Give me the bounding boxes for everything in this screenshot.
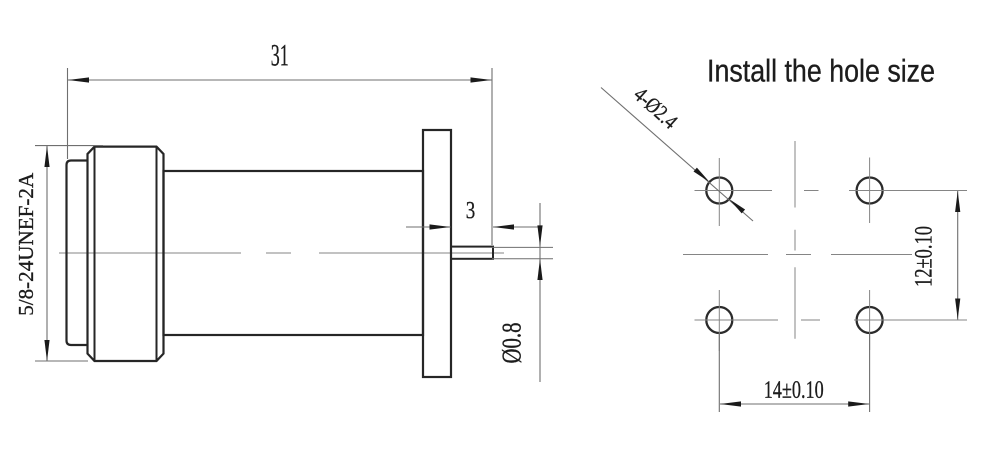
dimension 31: right arrowhead	[471, 77, 492, 82]
hole bottom-left	[706, 307, 732, 333]
svg-text:3: 3	[466, 197, 476, 224]
dimension 14±0.10: left arrowhead	[720, 401, 741, 406]
svg-text:14±0.10: 14±0.10	[764, 377, 824, 404]
dimension 3 (pin length): dimension line left part	[406, 226, 451, 228]
hex nut left flat line	[94, 147, 96, 361]
dimension 5/8-24UNEF-2A: dimension line	[46, 146, 48, 361]
connector rear cap (left rounded rectangle)	[67, 161, 88, 346]
dimension 3: left arrowhead (points right at flange face)	[430, 224, 451, 229]
dimension 5/8-24UNEF-2A: extension lines	[35, 146, 103, 361]
hex nut body (octagon outline)	[88, 147, 164, 361]
dimension 5/8-24UNEF-2A: top arrowhead	[44, 146, 49, 167]
centerline (main axis)	[59, 252, 504, 254]
dimension 3: dimension line right part	[493, 226, 540, 228]
dimension 12±0.10: bottom arrowhead	[955, 299, 960, 320]
svg-text:12±0.10: 12±0.10	[911, 226, 938, 287]
pin diameter extension lines	[492, 247, 553, 258]
centerline middle column	[794, 141, 796, 339]
dimension Ø0.8: upper arrowhead (points down)	[537, 225, 542, 246]
hole bottom-right	[857, 307, 883, 333]
leader 4-Ø2.4: upper arrowhead (points to hole)	[694, 168, 710, 182]
centerline top row	[695, 190, 968, 192]
hole top-right	[857, 178, 883, 204]
svg-text:5/8-24UNEF-2A: 5/8-24UNEF-2A	[14, 172, 38, 315]
centerline bottom row	[695, 319, 968, 321]
dimension Ø0.8: dimension line	[539, 203, 541, 382]
svg-text:Ø0.8: Ø0.8	[497, 323, 527, 364]
centerline right column	[869, 158, 871, 351]
connector cylindrical body	[164, 171, 424, 335]
svg-text:31: 31	[271, 37, 289, 72]
center contact pin	[451, 247, 493, 259]
dimension 3: right arrowhead (points left at pin tip)	[493, 224, 514, 229]
dimension 5/8-24UNEF-2A: bottom arrowhead	[44, 340, 49, 361]
dimension 12±0.10: top arrowhead	[955, 191, 960, 212]
dimension 14±0.10: right arrowhead	[848, 401, 869, 406]
dimension 31: extension lines	[68, 68, 493, 245]
dimension 14±0.10: dimension line	[720, 403, 869, 405]
hole top-left	[706, 178, 732, 204]
leader 4-Ø2.4: lower arrowhead (points to hole)	[729, 199, 745, 213]
dimension Ø0.8: lower arrowhead (points up)	[537, 259, 542, 280]
mounting flange	[423, 130, 451, 377]
dimension 31: left arrowhead	[68, 77, 89, 82]
leader 4-Ø2.4: leader line	[601, 88, 753, 222]
dimension 31: dimension line	[68, 79, 492, 81]
centerline middle row	[683, 254, 912, 256]
dimension 14±0.10: extension lines	[719, 333, 869, 412]
hex nut right flat line	[156, 147, 158, 361]
svg-text:Install the hole size: Install the hole size	[707, 53, 935, 89]
dimension 12±0.10: dimension line	[957, 191, 959, 320]
centerline left column	[718, 158, 720, 351]
